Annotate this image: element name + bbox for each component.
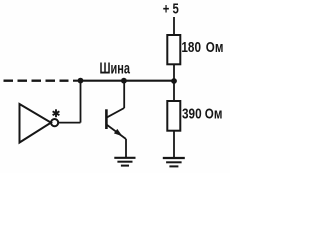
wire: +5 supply to R1 [173,17,175,35]
node: junction of R1/R2 divider with bus [171,78,177,84]
svg-text:Ом: Ом [206,40,224,56]
wire: bus horizontal (Шина net) [73,80,174,82]
wire: bus down to transistor collector [123,81,125,108]
label: R2 value 390 Ом [182,105,222,122]
wire: R1 to bus node [173,64,175,81]
wire: bus node to R2 [173,81,175,101]
svg-text:180: 180 [181,40,201,56]
label: R1 value 180 Ом [181,40,223,56]
svg-text:Шина: Шина [100,61,131,78]
wire: riser from inverter output up to bus [80,81,82,123]
wire: inverter output to riser corner [58,122,80,124]
svg-text:+ 5: + 5 [163,1,179,17]
ground (divider bottom) [163,158,185,166]
node: junction of inverter output riser with bus [78,78,84,84]
wire: emitter down to ground [125,139,127,157]
wire: R2 to ground [173,131,175,158]
asterisk marker (open-collector output) [53,109,60,117]
svg-text:Ом: Ом [205,105,223,122]
svg-text:390: 390 [182,105,202,122]
resistor R1 body (pull-up) [167,35,180,64]
resistor R2 body (pull-down) [167,101,180,131]
inverter U1 output bubble (open-collector) [51,119,58,126]
wire: dashed bus continuation (left) [4,79,69,81]
transistor VT1 (NPN, open collector) [106,108,126,139]
node: junction of transistor collector riser with bus [121,78,127,84]
inverter U1 (triangle) [20,104,52,143]
ground (transistor emitter) [114,158,135,166]
